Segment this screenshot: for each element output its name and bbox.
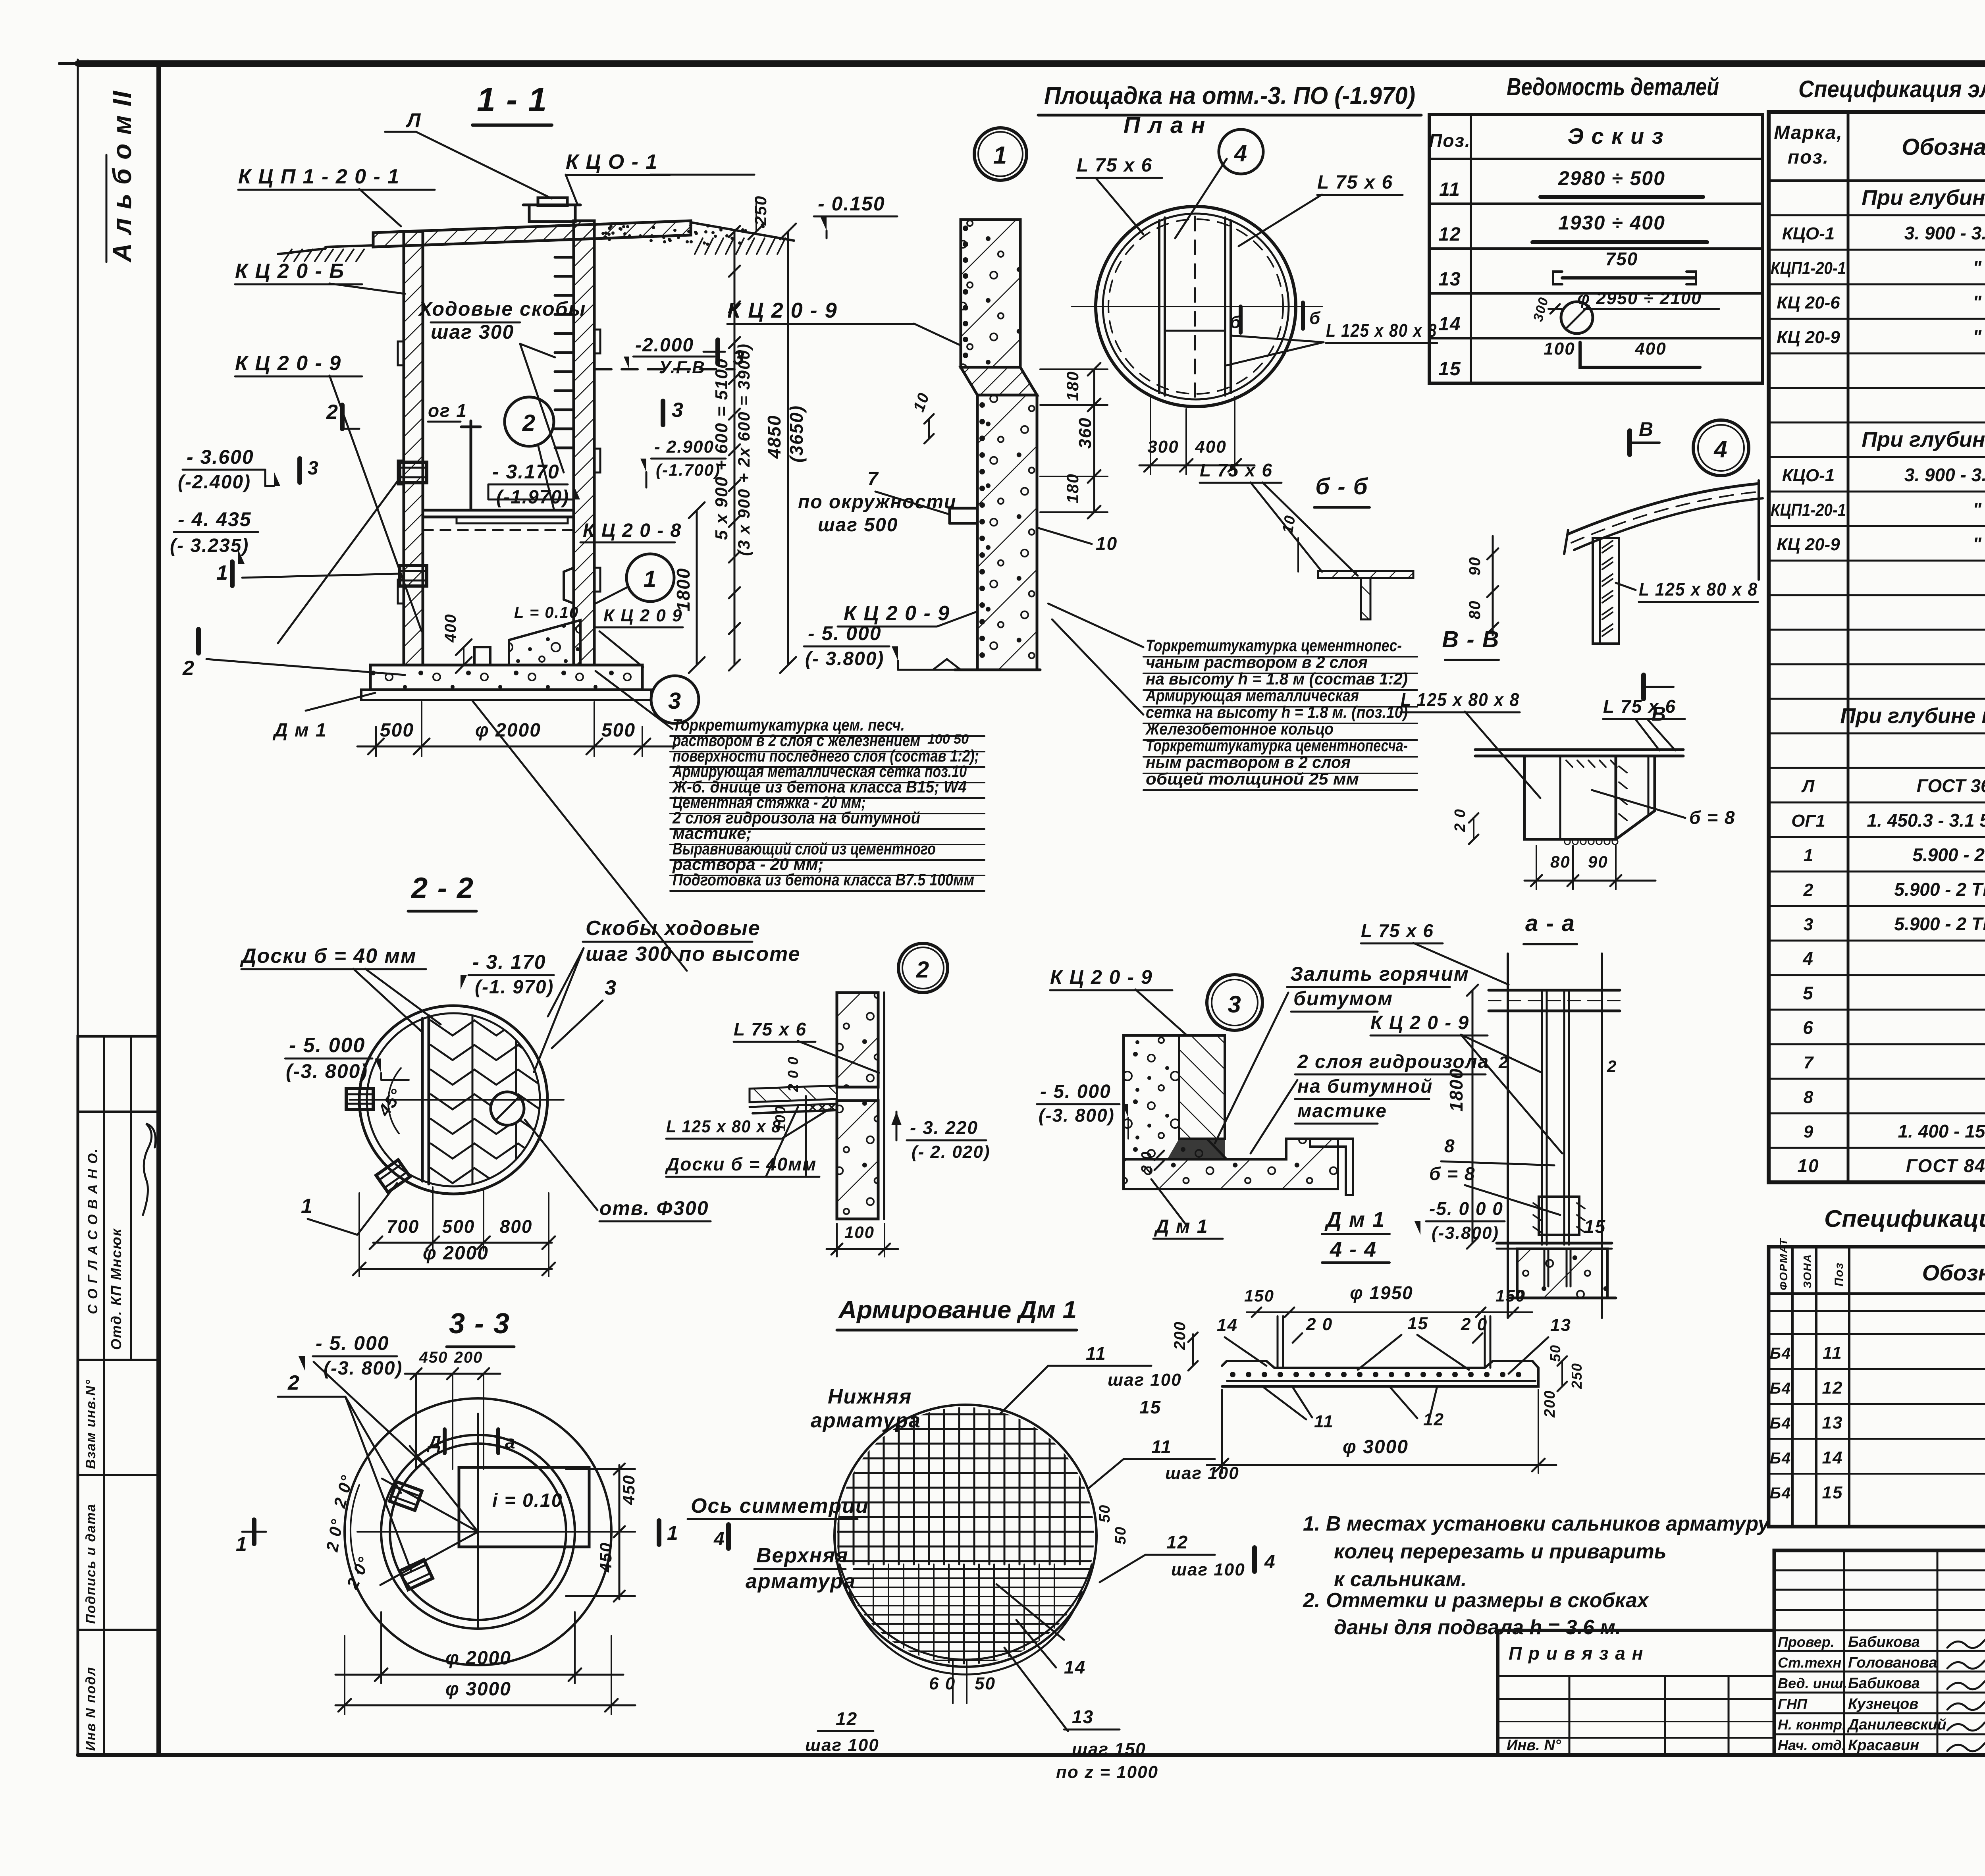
svg-text:450: 450 [419, 1349, 448, 1366]
spec table column lines [1847, 112, 1850, 1182]
4-4 slab body [1222, 1361, 1538, 1386]
б-б tee: flange [1318, 571, 1413, 578]
svg-text:100: 100 [844, 1223, 875, 1242]
svg-text:(- 3.235): (- 3.235) [170, 535, 249, 556]
svg-text:": " [1973, 499, 1982, 520]
svg-text:4: 4 [1713, 436, 1728, 463]
svg-text:арматура: арматура [746, 1570, 856, 1593]
small box on slab [474, 647, 490, 665]
well right wall (hatched) [574, 221, 594, 665]
svg-text:Б4: Б4 [1770, 1415, 1792, 1432]
В-В curved slab [1568, 484, 1759, 534]
svg-text:К Ц 2 0 - 9: К Ц 2 0 - 9 [1370, 1012, 1469, 1033]
svg-text:К Ц П 1 - 2 0 - 1: К Ц П 1 - 2 0 - 1 [238, 165, 400, 188]
svg-text:750: 750 [1605, 249, 1638, 269]
svg-text:L 125 х 80 х 8: L 125 х 80 х 8 [1639, 579, 1758, 600]
svg-text:3: 3 [672, 399, 684, 422]
svg-text:150: 150 [1495, 1286, 1526, 1305]
rebar dots left edge upper [963, 226, 968, 231]
svg-text:2: 2 [182, 657, 195, 680]
svg-text:ФОРМАТ: ФОРМАТ [1777, 1238, 1790, 1290]
svg-text:Площадка на отм.-3. ПО (-1.9: Площадка на отм.-3. ПО (-1.970) [1044, 82, 1415, 110]
a-a sleeve box [1539, 1197, 1579, 1235]
svg-text:2 0: 2 0 [1306, 1315, 1333, 1334]
В section mark top [1627, 431, 1632, 455]
svg-text:б - б: б - б [1315, 474, 1368, 499]
circled 2 detail callout [898, 943, 948, 993]
svg-text:10: 10 [1096, 533, 1118, 554]
spec table header row line [1769, 179, 1985, 182]
a-a bottom slab line [1497, 1242, 1612, 1245]
svg-text:200: 200 [1171, 1321, 1189, 1350]
bottom dim line [357, 746, 675, 748]
plan circle dashed [1108, 219, 1283, 394]
manhole lid [538, 198, 567, 206]
svg-text:2 0 0: 2 0 0 [785, 1056, 801, 1092]
main frame left border [156, 64, 161, 1755]
circled 1 callout big [974, 128, 1027, 180]
svg-text:С О Г Л А С О В А Н О.: С О Г Л А С О В А Н О. [85, 1148, 100, 1314]
detail 1 upper wall strip [961, 220, 1020, 367]
svg-text:(3 х 900 + 2х 600 = 3900): (3 х 900 + 2х 600 = 3900) [734, 343, 753, 556]
manhole neck [529, 205, 575, 222]
svg-text:Верхняя: Верхняя [756, 1544, 849, 1567]
2-2 dims 700 500 800 [373, 1242, 552, 1244]
ladder rungs (ходовые скобы) [555, 256, 574, 259]
stamp column cells [78, 1036, 159, 1755]
svg-text:250: 250 [751, 195, 770, 226]
svg-text:": " [1973, 534, 1982, 554]
dim chain right 1: 5x900+600=5100 [734, 231, 736, 665]
svg-text:поз.: поз. [1788, 147, 1829, 168]
2-2 clamp symbols [346, 1089, 373, 1109]
main frame bottom border [78, 1753, 1985, 1757]
svg-text:150: 150 [1244, 1286, 1274, 1305]
bracket detail top plate [1475, 748, 1683, 751]
svg-text:": " [1973, 257, 1982, 278]
svg-text:на битумной: на битумной [1297, 1076, 1433, 1097]
svg-text:Ходовые скобы: Ходовые скобы [418, 298, 586, 320]
svg-text:Поз: Поз [1833, 1262, 1846, 1286]
svg-text:Обозначение: Обозначение [1922, 1260, 1985, 1285]
svg-text:шаг 100: шаг 100 [1171, 1560, 1245, 1579]
svg-text:500: 500 [601, 720, 636, 741]
svg-text:12: 12 [1423, 1410, 1444, 1429]
svg-text:КЦО-1: КЦО-1 [1782, 224, 1835, 243]
svg-text:15: 15 [1584, 1216, 1606, 1237]
svg-text:КЦП1-20-1: КЦП1-20-1 [1771, 500, 1846, 520]
svg-text:11: 11 [1823, 1343, 1842, 1363]
svg-text:12: 12 [836, 1708, 858, 1729]
right wall ring joints [594, 330, 600, 353]
svg-text:б = 8: б = 8 [1689, 807, 1736, 828]
section mark 2 left top [340, 405, 345, 429]
svg-text:Торкретштукатурка цементнопес-: Торкретштукатурка цементнопес- [1146, 636, 1402, 655]
svg-text:L 75 х 6: L 75 х 6 [1077, 155, 1152, 176]
3-3 dim f3000 [335, 1704, 635, 1706]
svg-text:φ 2000: φ 2000 [475, 720, 541, 741]
svg-text:-2.000: -2.000 [635, 335, 694, 356]
svg-text:11: 11 [1314, 1412, 1334, 1431]
svg-text:14: 14 [1438, 314, 1461, 335]
title block upper: sig rows left [1774, 1550, 1985, 1755]
svg-text:3: 3 [1804, 915, 1813, 934]
plan horizontal axis [1072, 306, 1322, 307]
svg-text:Провер.: Провер. [1778, 1634, 1835, 1650]
svg-text:колец перерезать и привари: колец перерезать и приварить [1334, 1540, 1667, 1563]
svg-text:13: 13 [1438, 269, 1461, 290]
mesh circle outline [834, 1405, 1097, 1667]
svg-text:2 слоя гидроизола: 2 слоя гидроизола [1297, 1051, 1489, 1072]
svg-text:400: 400 [1634, 339, 1666, 359]
label 2 leader bottom [206, 659, 405, 675]
svg-text:мастике: мастике [1297, 1101, 1387, 1122]
svg-text:1: 1 [301, 1195, 313, 1218]
svg-text:Армирование Дм 1: Армирование Дм 1 [838, 1296, 1077, 1324]
svg-text:3: 3 [605, 976, 617, 999]
3-3 axis lines [477, 1413, 479, 1628]
section mark 3 right [661, 401, 665, 425]
svg-text:- 3. 170: - 3. 170 [472, 951, 546, 973]
svg-text:3 - 3: 3 - 3 [449, 1308, 510, 1340]
svg-text:500: 500 [442, 1216, 475, 1237]
svg-text:- 5. 000: - 5. 000 [289, 1034, 365, 1057]
svg-text:(-1.970): (-1.970) [496, 487, 569, 508]
svg-text:15: 15 [1407, 1314, 1428, 1333]
railing post ог1 [470, 421, 472, 510]
svg-text:": " [1973, 326, 1982, 347]
svg-text:7: 7 [867, 469, 879, 490]
svg-text:ЗОНА: ЗОНА [1801, 1253, 1813, 1288]
svg-text:2 0: 2 0 [1138, 1151, 1154, 1174]
svg-text:При глубине подвала h = 4: При глубине подвала h = 4.8 м [1862, 186, 1985, 210]
svg-text:50: 50 [1097, 1504, 1113, 1523]
svg-text:шаг 100: шаг 100 [805, 1735, 879, 1755]
detail2 dims 100 200 rotated [805, 1096, 807, 1175]
svg-text:Отд. КП Мнсюк: Отд. КП Мнсюк [108, 1228, 124, 1350]
section mark 1 left [230, 562, 235, 586]
svg-text:В: В [1639, 418, 1654, 440]
svg-text:К Ц 2 0 - 9: К Ц 2 0 - 9 [727, 299, 838, 322]
svg-text:Подготовка из бетона класса В7: Подготовка из бетона класса В7.5 100мм [673, 870, 974, 889]
svg-text:(-1. 970): (-1. 970) [475, 977, 554, 998]
dim chain right 2: 4850 [787, 231, 789, 665]
base slab (speckled) [370, 665, 642, 690]
svg-text:битумом: битумом [1293, 987, 1393, 1010]
svg-text:φ 2000: φ 2000 [445, 1648, 511, 1669]
ground hatch left [284, 249, 292, 261]
svg-text:10: 10 [1280, 514, 1299, 535]
svg-text:15: 15 [1822, 1483, 1843, 1502]
svg-text:9: 9 [1804, 1122, 1813, 1141]
svg-text:100: 100 [1544, 339, 1575, 359]
svg-text:400: 400 [1195, 437, 1226, 457]
svg-text:Б4: Б4 [1770, 1485, 1792, 1502]
svg-text:При глубине подвала h: При глубине подвала h = 3.6 м [1862, 428, 1985, 451]
svg-text:2: 2 [1607, 1057, 1617, 1076]
circled 4 callout [1219, 129, 1263, 174]
svg-text:Л: Л [1801, 777, 1815, 796]
svg-text:1: 1 [236, 1533, 248, 1555]
3-3 dims 450 450 right [619, 1465, 621, 1599]
dim 1800 right [696, 510, 698, 665]
plan circle outer [1096, 206, 1296, 407]
detail2 wall inner facing [877, 993, 879, 1219]
svg-text:200: 200 [1542, 1390, 1558, 1418]
detail3 bitumen wedge [1167, 1139, 1225, 1159]
svg-text:L 125 х 80 х 8: L 125 х 80 х 8 [1401, 689, 1520, 710]
3-3 wall ring outer [381, 1435, 575, 1629]
svg-text:б: б [1230, 312, 1241, 332]
svg-text:5 х 900 + 600 = 5100: 5 х 900 + 600 = 5100 [712, 358, 731, 540]
3-3 ring speckle arc [478, 1435, 575, 1532]
svg-text:3: 3 [668, 688, 682, 714]
svg-text:шаг 300 по высоте: шаг 300 по высоте [586, 943, 801, 966]
leader 1 to clamp [242, 574, 399, 578]
svg-text:12: 12 [1166, 1532, 1188, 1552]
svg-text:- 3.600: - 3.600 [187, 446, 254, 468]
svg-text:1: 1 [1804, 846, 1813, 865]
svg-text:14: 14 [1217, 1315, 1238, 1335]
svg-text:2: 2 [326, 401, 339, 424]
svg-text:Инв. N°: Инв. N° [1507, 1737, 1561, 1754]
svg-text:100: 100 [772, 1105, 788, 1132]
svg-text:КЦО-1: КЦО-1 [1782, 466, 1835, 485]
bracket hatch marks [1566, 760, 1573, 767]
svg-text:4: 4 [1264, 1552, 1276, 1573]
В-В dims 80 90 [1492, 536, 1494, 635]
В section mark bottom [1641, 675, 1646, 699]
svg-text:2 0: 2 0 [1452, 808, 1469, 832]
3-3 outer circle [345, 1398, 611, 1665]
spec table row lines [1769, 214, 1985, 216]
svg-text:а - а: а - а [1525, 910, 1575, 936]
bracket angled gusset [1616, 756, 1655, 839]
inner wall bracket at circled1 [564, 568, 574, 603]
svg-text:10: 10 [1797, 1155, 1819, 1176]
2-2 hole otv f300 [491, 1092, 524, 1125]
concrete wedge at sump [509, 620, 580, 665]
svg-text:К Ц 2 0 - Б: К Ц 2 0 - Б [235, 260, 345, 283]
svg-text:80: 80 [1466, 600, 1484, 620]
svg-text:50: 50 [975, 1674, 996, 1693]
3-3 20deg arc [351, 1485, 359, 1573]
sleeve X ticks [1533, 1203, 1541, 1209]
a-a outer walls [1507, 954, 1509, 1318]
svg-text:50: 50 [1547, 1344, 1563, 1362]
svg-text:- 3. 220: - 3. 220 [910, 1117, 978, 1138]
svg-text:на высоту h = 1.8 м (состав: на высоту h = 1.8 м (состав 1:2) [1146, 669, 1408, 688]
4-4 bottom dim f3000 [1207, 1464, 1556, 1466]
svg-text:Доски б = 40 мм: Доски б = 40 мм [240, 945, 416, 968]
svg-text:ГНП: ГНП [1778, 1696, 1808, 1712]
ground hatch right soil dots [695, 238, 703, 254]
svg-text:ГОСТ 8478 - 81: ГОСТ 8478 - 81 [1906, 1155, 1985, 1176]
svg-text:15: 15 [1438, 359, 1461, 380]
svg-text:Ведомость деталей: Ведомость деталей [1507, 73, 1719, 101]
svg-text:(-3. 800): (-3. 800) [1039, 1105, 1115, 1126]
corner tick top-left [60, 62, 78, 65]
detail2 wall strip lower [837, 1101, 878, 1219]
svg-text:(-3. 800): (-3. 800) [324, 1358, 403, 1379]
svg-text:φ 3000: φ 3000 [445, 1679, 511, 1700]
left wall ring joints [398, 341, 404, 365]
svg-text:φ 1950: φ 1950 [1350, 1282, 1413, 1303]
well left wall (hatched) [404, 231, 423, 665]
svg-text:К Ц 2 0 - 9: К Ц 2 0 - 9 [844, 602, 950, 625]
svg-text:Д м 1: Д м 1 [1324, 1208, 1385, 1232]
svg-text:общей толщиной 25 мм: общей толщиной 25 мм [1146, 769, 1359, 788]
svg-text:КЦ 20-9: КЦ 20-9 [1777, 535, 1840, 554]
detail3 wall column [1179, 1035, 1225, 1139]
dim 250 top [755, 199, 757, 231]
svg-text:5.900 - 2 ТМ 89 - 05: 5.900 - 2 ТМ 89 - 05 [1894, 914, 1985, 934]
svg-text:Нач. отд.: Нач. отд. [1778, 1737, 1846, 1753]
mark 4 left [726, 1525, 731, 1548]
svg-text:2. Отметки и размеры в ск: 2. Отметки и размеры в скобках [1303, 1589, 1650, 1612]
svg-text:Инв N подл: Инв N подл [83, 1666, 98, 1751]
svg-text:1 - 1: 1 - 1 [477, 81, 547, 118]
svg-text:Подпись и дата: Подпись и дата [83, 1503, 98, 1624]
svg-text:Б4: Б4 [1770, 1345, 1792, 1362]
svg-text:12: 12 [1822, 1378, 1843, 1398]
svg-text:L 75 х 6: L 75 х 6 [1200, 460, 1273, 480]
svg-text:2 0: 2 0 [1461, 1315, 1488, 1334]
svg-text:А л ь б о м II: А л ь б о м II [107, 90, 137, 263]
svg-text:сетка на высоту h = 1.8 м. (п: сетка на высоту h = 1.8 м. (поз.10) [1146, 703, 1408, 721]
svg-text:4: 4 [1802, 948, 1814, 969]
svg-text:450: 450 [619, 1475, 638, 1505]
svg-text:50: 50 [1112, 1526, 1129, 1544]
svg-text:(-1.700): (-1.700) [656, 461, 721, 479]
leader from КЦ209 to wall [599, 631, 643, 667]
svg-text:КЦ 20-9: КЦ 20-9 [1777, 328, 1840, 347]
svg-text:Б4: Б4 [1770, 1380, 1792, 1397]
platform dashed line [423, 529, 574, 531]
svg-text:1: 1 [644, 566, 657, 592]
svg-text:13: 13 [1550, 1315, 1571, 1335]
mark 4 near notes [1252, 1548, 1257, 1571]
3-3 radial lines [382, 1479, 478, 1532]
4-4 rebar dots top [1230, 1372, 1235, 1377]
svg-text:4: 4 [713, 1529, 725, 1550]
svg-text:800: 800 [500, 1216, 533, 1237]
svg-text:(-2.400): (-2.400) [178, 472, 251, 493]
svg-text:К Ц 2 0 - 9: К Ц 2 0 - 9 [235, 352, 341, 375]
sheet outer thin border line [77, 60, 79, 1755]
svg-text:1. 400 - 15. 81. 810: 1. 400 - 15. 81. 810 [1898, 1121, 1985, 1141]
svg-text:Красавин: Красавин [1848, 1737, 1919, 1754]
svg-text:2980 ÷ 500: 2980 ÷ 500 [1558, 167, 1665, 189]
svg-text:Ст.техн: Ст.техн [1778, 1654, 1842, 1671]
svg-text:Доски б = 40мм: Доски б = 40мм [665, 1154, 817, 1174]
section mark 2 bottom left [196, 629, 201, 653]
svg-text:Железобетонное кольцо: Железобетонное кольцо [1145, 719, 1334, 738]
svg-text:400: 400 [442, 613, 459, 643]
base slab lower course [361, 690, 651, 700]
svg-text:(-3. 800): (-3. 800) [286, 1060, 368, 1082]
plan circle inner [1103, 214, 1289, 399]
svg-text:Бабикова: Бабикова [1848, 1675, 1920, 1692]
svg-text:арматура: арматура [811, 1409, 921, 1432]
svg-text:КЦП1-20-1: КЦП1-20-1 [1771, 258, 1846, 278]
В-В vertical post [1593, 538, 1619, 644]
svg-text:ОГ1: ОГ1 [1791, 811, 1825, 831]
svg-text:4 - 4: 4 - 4 [1330, 1238, 1377, 1261]
3-3 dim f2000 [335, 1674, 623, 1676]
svg-text:шаг 100: шаг 100 [1165, 1463, 1239, 1483]
svg-text:Спецификация монолитного д: Спецификация монолитного днища [1824, 1205, 1985, 1232]
svg-text:3. 900 - 3. вып. 7: 3. 900 - 3. вып. 7 [1904, 465, 1985, 485]
svg-text:2: 2 [287, 1371, 300, 1394]
svg-text:К Ц 2 0 - 9: К Ц 2 0 - 9 [1050, 966, 1153, 988]
svg-text:700: 700 [387, 1216, 420, 1237]
svg-text:L 75 х 6: L 75 х 6 [1361, 920, 1434, 941]
svg-text:ГОСТ 3634-79: ГОСТ 3634-79 [1917, 775, 1985, 796]
mesh circle inner rings bottom [840, 1564, 1092, 1660]
svg-text:Л: Л [406, 109, 421, 131]
3-3 square opening [459, 1467, 589, 1547]
svg-text:Марка,: Марка, [1774, 122, 1843, 143]
bracket on detail 1 [950, 508, 977, 523]
svg-text:Ось симметрии: Ось симметрии [691, 1494, 869, 1517]
svg-text:12: 12 [1438, 224, 1461, 245]
svg-text:1. В местах установки сальн: 1. В местах установки сальников арматуру [1303, 1512, 1771, 1535]
svg-text:шаг 150: шаг 150 [1072, 1739, 1146, 1759]
2-2 ring hatch segments [359, 1006, 453, 1100]
2-2 axis lines [349, 1099, 564, 1101]
detail2 weld X marks [810, 1105, 815, 1110]
svg-text:- 0.150: - 0.150 [818, 193, 885, 215]
svg-text:450: 450 [596, 1542, 615, 1573]
svg-text:ным раствором в 2 слоя: ным раствором в 2 слоя [1146, 753, 1351, 771]
dims 180/360/180 right [1093, 369, 1095, 512]
detail3 edge angle [1310, 1139, 1353, 1195]
svg-text:Обозначение: Обозначение [1902, 134, 1985, 160]
a-a top flange [1489, 989, 1620, 992]
svg-text:180: 180 [1063, 371, 1082, 401]
a-a rods (double lines) [1541, 990, 1543, 1245]
svg-text:Б4: Б4 [1770, 1450, 1792, 1467]
detail2 angle under floor [753, 1110, 837, 1113]
detail2 wall strip upper [837, 993, 878, 1087]
svg-text:а: а [505, 1432, 516, 1452]
svg-text:5: 5 [1803, 983, 1814, 1003]
mesh diagonal band lower right [996, 1584, 1064, 1640]
svg-text:φ 3000: φ 3000 [1343, 1436, 1409, 1458]
svg-text:- 3.170: - 3.170 [492, 461, 560, 483]
svg-text:отв. Φ300: отв. Φ300 [599, 1197, 709, 1219]
a-a dim 1800 [1472, 990, 1474, 1243]
3-3 wall ring inner [390, 1444, 566, 1620]
svg-text:360: 360 [1075, 417, 1095, 449]
svg-text:4: 4 [1234, 141, 1248, 166]
svg-text:Бабикова: Бабикова [1848, 1634, 1920, 1650]
svg-text:1930 ÷ 400: 1930 ÷ 400 [1558, 212, 1665, 234]
svg-text:К Ц 2 0 9: К Ц 2 0 9 [603, 606, 682, 625]
svg-text:13: 13 [1822, 1413, 1843, 1433]
У.Г.В dashed groundwater line [595, 368, 734, 370]
svg-text:П р и в я з а н: П р и в я з а н [1509, 1643, 1644, 1664]
svg-text:300: 300 [1147, 437, 1179, 457]
svg-text:3: 3 [308, 458, 319, 479]
svg-text:11: 11 [1151, 1436, 1172, 1457]
svg-text:к сальникам.: к сальникам. [1334, 1568, 1467, 1591]
svg-text:Н. контр.: Н. контр. [1778, 1716, 1846, 1733]
platform floor at -3.170 [423, 509, 574, 512]
svg-text:4850: 4850 [764, 415, 784, 459]
svg-text:Кузнецов: Кузнецов [1848, 1696, 1918, 1712]
